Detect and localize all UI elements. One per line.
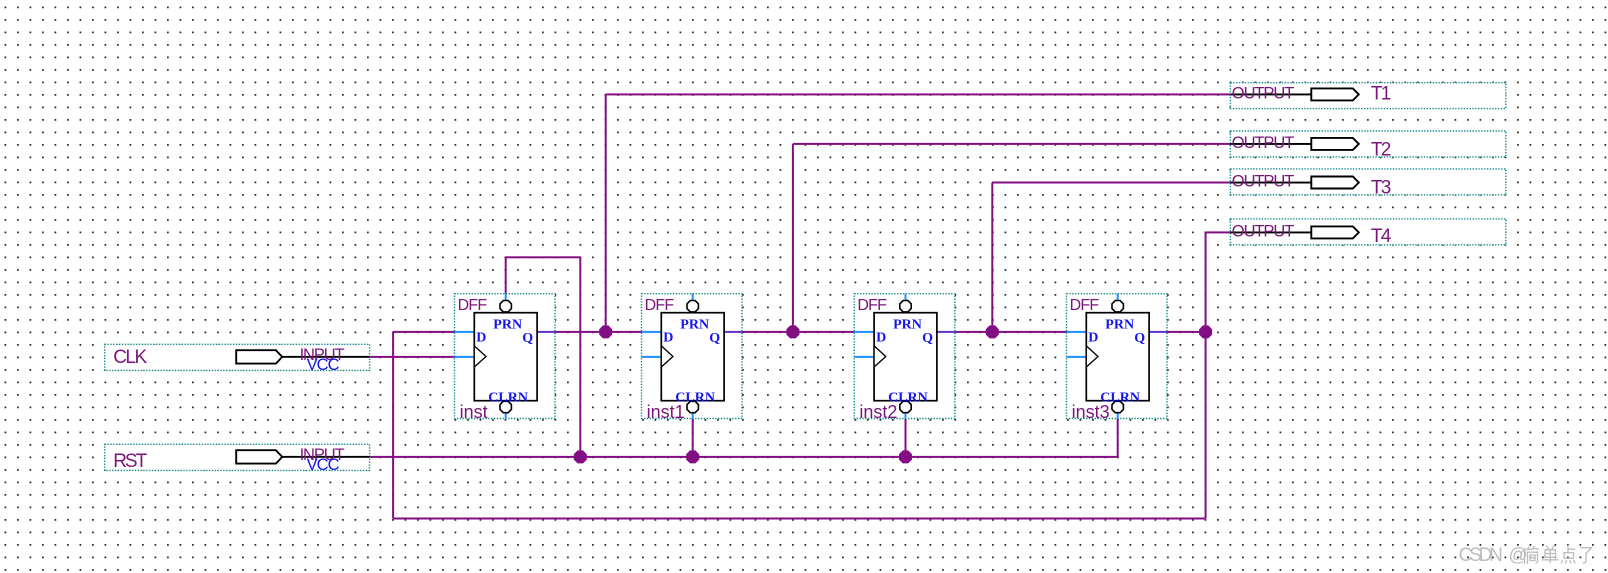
wire T2 net (Q2 to output T2) [792, 143, 1231, 332]
svg-text:OUTPUT: OUTPUT [1232, 172, 1295, 190]
svg-text:VCC: VCC [307, 456, 340, 474]
wire Q3 to D4 segment [955, 331, 1067, 333]
input pin CLK [105, 344, 370, 374]
wire DFF1 PRN to RST net (up-over-down) [505, 256, 582, 457]
junction RST/CLRN3 [899, 450, 912, 463]
D flip-flop U3 (inst2) [854, 294, 955, 422]
svg-text:PRN: PRN [493, 318, 522, 333]
svg-text:PRN: PRN [680, 318, 709, 333]
svg-text:DFF: DFF [645, 297, 675, 314]
wire DFF3 CLRN to RST net [905, 413, 907, 457]
junction Q2/T2 [786, 325, 799, 338]
svg-text:PRN: PRN [893, 318, 922, 333]
svg-text:CLRN: CLRN [1100, 390, 1140, 405]
svg-text:OUTPUT: OUTPUT [1232, 84, 1295, 102]
wire Q1 to D2 segment [555, 331, 642, 333]
svg-text:inst: inst [460, 402, 488, 422]
svg-text:T1: T1 [1371, 84, 1391, 105]
output pin T2 [1230, 131, 1505, 160]
wire DFF2 CLRN to RST net [692, 413, 694, 457]
wire Q2 to D3 segment [742, 331, 854, 333]
svg-text:T4: T4 [1371, 226, 1392, 247]
svg-text:DFF: DFF [857, 297, 887, 314]
output pin T4 [1230, 219, 1505, 247]
svg-text:Q: Q [922, 331, 933, 346]
junction RST/CLRN2 [686, 450, 699, 463]
svg-text:PRN: PRN [1105, 318, 1134, 333]
wire DFF4 CLRN to RST net [1117, 413, 1119, 457]
wire T4 net (Q4 to output T4) [1205, 231, 1231, 332]
wire T3 net (Q3 to output T3) [991, 182, 1230, 332]
svg-text:CLRN: CLRN [888, 390, 928, 405]
junction RST/PRN1 [574, 450, 587, 463]
svg-text:T3: T3 [1371, 177, 1391, 198]
junction Q1/T1 [599, 325, 612, 338]
svg-text:D: D [876, 331, 886, 346]
svg-text:T2: T2 [1371, 139, 1391, 160]
svg-text:VCC: VCC [307, 356, 340, 374]
watermark chinese glyphs [1524, 546, 1592, 564]
svg-text:DFF: DFF [1070, 297, 1100, 314]
wire CLK net (input CLK to DFF1 clock) [370, 356, 455, 358]
wire Q4 segment [1167, 331, 1206, 333]
svg-text:D: D [1088, 331, 1098, 346]
junction Q4/T4/feedback [1199, 325, 1212, 338]
output pin T1 [1230, 83, 1505, 109]
wire feedback Q4 to D1 [392, 331, 1207, 520]
D flip-flop U1 (inst) [455, 294, 556, 422]
watermark CSDN [1459, 545, 1528, 566]
junction Q3/T3 [986, 325, 999, 338]
svg-text:DFF: DFF [458, 297, 488, 314]
output pin T3 [1230, 169, 1505, 198]
svg-text:OUTPUT: OUTPUT [1232, 134, 1295, 152]
svg-text:Q: Q [1134, 331, 1145, 346]
svg-text:CLRN: CLRN [488, 390, 528, 405]
svg-text:OUTPUT: OUTPUT [1232, 222, 1295, 240]
svg-text:CLRN: CLRN [675, 390, 715, 405]
wire RST net horizontal [370, 456, 1118, 458]
svg-text:Q: Q [522, 331, 533, 346]
svg-text:CSDN: CSDN [1459, 545, 1503, 566]
svg-text:RST: RST [113, 451, 147, 472]
D flip-flop U4 (inst3) [1067, 294, 1168, 422]
svg-text:D: D [663, 331, 673, 346]
svg-text:CLK: CLK [113, 347, 147, 368]
svg-text:D: D [476, 331, 486, 346]
D flip-flop U2 (inst1) [642, 294, 743, 422]
svg-text:Q: Q [709, 331, 720, 346]
input pin RST [105, 444, 370, 474]
wire T1 net (Q1 to output T1) [605, 93, 1231, 332]
